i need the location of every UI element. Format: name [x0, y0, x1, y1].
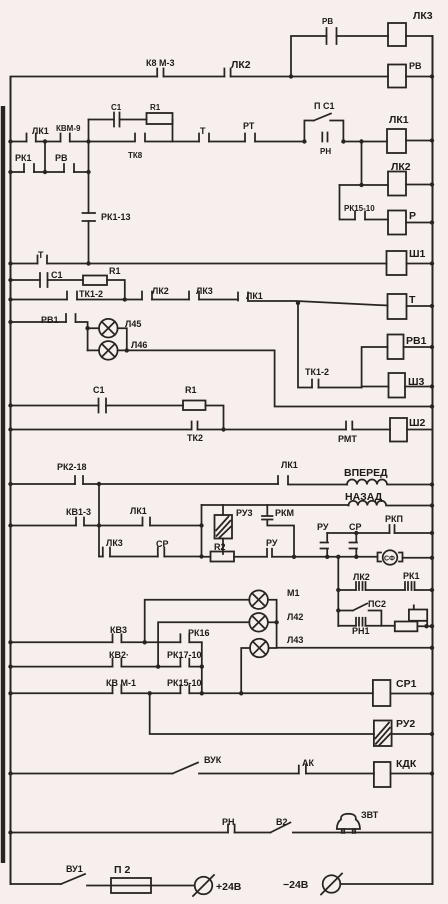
contact К8 М-3 — [157, 69, 163, 77]
svg-text:РК2-18: РК2-18 — [57, 462, 87, 472]
wire row7 — [11, 406, 224, 430]
motor СФ — [378, 550, 403, 565]
contact РК1 — [24, 164, 34, 172]
wire РУ3 stubs — [222, 505, 224, 554]
contact РК2-18 — [75, 476, 83, 484]
contact КВ2 — [113, 659, 122, 667]
svg-text:СР: СР — [156, 539, 169, 549]
svg-text:В2: В2 — [276, 817, 288, 827]
contact РКП — [390, 525, 395, 533]
svg-text:ЛК2: ЛК2 — [231, 59, 251, 71]
wire C1R1 parallel branch — [89, 120, 173, 142]
svg-text:ТК1-2: ТК1-2 — [305, 367, 329, 377]
capacitor C1 — [114, 113, 120, 127]
contact РК15-10 — [355, 212, 365, 220]
svg-text:ВПЕРЕД: ВПЕРЕД — [344, 467, 388, 479]
relay coil ЛК2 — [388, 172, 406, 196]
lamp Л43 — [250, 639, 269, 658]
svg-text:+24В: +24В — [216, 881, 242, 893]
contact Т — [199, 134, 209, 142]
node row2 drop — [359, 139, 363, 143]
wire row3 — [11, 263, 387, 265]
svg-text:РН1: РН1 — [352, 626, 370, 636]
node row2 right — [86, 139, 90, 143]
contact СР — [158, 548, 165, 557]
contact РВ — [327, 28, 337, 44]
wire lamp М1 feed — [145, 600, 250, 643]
svg-text:РУ3: РУ3 — [236, 508, 253, 518]
wire row ЛК2-РК1 — [338, 589, 432, 591]
contact ЛК1 — [278, 476, 288, 484]
svg-text:М1: М1 — [287, 588, 300, 598]
relay coil ЛК3 — [388, 23, 406, 46]
wire mid vertical — [44, 142, 46, 173]
contact ЛК3 — [103, 548, 110, 557]
contact СР vertical — [350, 533, 358, 557]
wire row4 — [11, 280, 125, 299]
resistor R1 — [83, 276, 107, 286]
svg-text:Т: Т — [200, 126, 206, 136]
wire РУ2 drop — [150, 693, 374, 734]
terminal +24В — [193, 875, 214, 896]
capacitor С1 — [99, 399, 107, 413]
contact РУ — [267, 549, 272, 557]
wire row10 КВ1-3 — [11, 525, 202, 527]
svg-text:РВ: РВ — [322, 17, 333, 26]
svg-text:Ш3: Ш3 — [408, 376, 425, 388]
wire top rail НАЗАД feed — [202, 504, 349, 506]
contact ТК2 — [192, 422, 198, 430]
svg-text:ЛК1: ЛК1 — [246, 291, 263, 301]
contact ЛК1 — [143, 518, 151, 526]
blinker РУ3 — [215, 515, 233, 539]
wire lamp Л43 feed — [241, 648, 250, 693]
svg-text:ЛК2: ЛК2 — [152, 286, 169, 296]
contact РКМ vertical — [262, 505, 294, 557]
switch ВУК — [173, 763, 199, 774]
svg-text:РК1-13: РК1-13 — [101, 212, 131, 222]
wire lamp Л42 feed — [158, 622, 249, 666]
wire lamp2 leads — [88, 349, 275, 351]
wire bottom rail — [202, 557, 433, 558]
svg-text:ЗВТ: ЗВТ — [361, 810, 379, 820]
svg-text:РН: РН — [222, 817, 235, 827]
bell ЗВТ — [337, 814, 360, 833]
contact ЛК1 — [27, 134, 36, 142]
svg-text:R1: R1 — [185, 385, 197, 395]
inductor ВПЕРЕД — [347, 480, 433, 485]
contact РМТ — [346, 422, 352, 430]
wire node vertical x88 — [88, 120, 90, 264]
contact ЛК1 — [238, 293, 248, 301]
relay coil Ш1 — [387, 251, 407, 275]
wire row5 — [11, 300, 388, 306]
svg-text:ЛК1: ЛК1 — [389, 114, 409, 126]
contact ТК1-2 — [312, 380, 319, 388]
svg-text:РВ: РВ — [409, 61, 422, 71]
contact Т — [38, 256, 48, 264]
svg-text:К8 М-3: К8 М-3 — [146, 58, 175, 68]
svg-text:КВ2·: КВ2· — [109, 650, 129, 660]
contact РН — [322, 133, 327, 142]
wire bottom left — [11, 884, 195, 886]
svg-text:РК15-10: РК15-10 — [344, 204, 375, 213]
svg-text:С1: С1 — [51, 270, 63, 280]
svg-text:РУ2: РУ2 — [396, 718, 415, 730]
node row9 branch — [97, 482, 101, 486]
contact РВ — [64, 164, 74, 172]
wire lamp feed to bus — [275, 350, 433, 406]
box aux — [409, 605, 427, 627]
wire rowII КВ2 РК17-10 — [11, 666, 202, 668]
relay coil КДК — [374, 762, 391, 787]
svg-text:РК17-10: РК17-10 — [167, 650, 202, 660]
svg-text:R1: R1 — [109, 266, 121, 276]
svg-text:Л46: Л46 — [131, 340, 147, 350]
svg-text:Ш1: Ш1 — [409, 248, 426, 260]
contact РН — [228, 825, 235, 833]
svg-text:ЛК3: ЛК3 — [413, 10, 433, 22]
wire row6 — [11, 322, 88, 350]
svg-text:РК16: РК16 — [188, 628, 210, 638]
contact ЛК2 — [142, 292, 152, 300]
wire row2 — [11, 141, 388, 143]
wire Ш3 feed — [362, 386, 389, 388]
svg-text:С1: С1 — [111, 103, 122, 112]
lamp Л46 — [99, 341, 118, 360]
wire row2b — [11, 171, 89, 173]
capacitor С1 — [40, 273, 48, 287]
wire x338 drop — [337, 557, 339, 626]
contact ЛК2 — [356, 582, 366, 590]
svg-text:КВ М-1: КВ М-1 — [106, 678, 136, 688]
svg-text:АК: АК — [302, 758, 314, 768]
blinker РУ2 — [374, 721, 392, 747]
svg-text:РВ1: РВ1 — [41, 315, 59, 325]
svg-text:П 2: П 2 — [114, 864, 130, 876]
lamp М1 — [249, 590, 268, 609]
svg-text:Т: Т — [38, 250, 44, 260]
wire drop to ЛК2 coil — [340, 142, 389, 186]
svg-text:ВУ1: ВУ1 — [66, 864, 83, 874]
relay coil РВ1 — [388, 335, 404, 360]
lamp Л42 — [249, 613, 268, 632]
inductor НАЗАД — [349, 501, 433, 506]
contact РТ — [245, 134, 255, 142]
wire row РН В2 ЗВТ — [11, 832, 433, 834]
contact КВ М-1 — [113, 685, 122, 693]
wire lamp tie and output — [268, 600, 433, 648]
relay coil Ш2 — [390, 418, 407, 442]
fuse П2 — [111, 878, 151, 893]
svg-text:СФ: СФ — [384, 556, 395, 563]
relay coil Ш3 — [389, 373, 406, 398]
contact КВ3 — [113, 634, 122, 642]
wire row11 ЛК3-СР — [99, 556, 202, 558]
contact РК1-13 — [83, 213, 96, 221]
svg-text:РВ1: РВ1 — [406, 335, 427, 347]
svg-text:РК15-10: РК15-10 — [167, 678, 202, 688]
svg-text:ЛК1: ЛК1 — [281, 460, 298, 470]
svg-text:ТК2: ТК2 — [187, 433, 203, 443]
svg-text:ЛК3: ЛК3 — [106, 538, 123, 548]
svg-text:−24В: −24В — [283, 879, 309, 891]
switch ВУ1 — [61, 874, 85, 884]
svg-text:РКМ: РКМ — [275, 508, 294, 518]
svg-text:КДК: КДК — [396, 758, 417, 770]
relay coil ЛК1 — [387, 129, 406, 153]
svg-text:РКП: РКП — [385, 514, 403, 524]
contact РК15-10 — [180, 685, 189, 693]
svg-text:КВМ-9: КВМ-9 — [56, 124, 81, 133]
svg-text:Л42: Л42 — [287, 612, 303, 622]
relay coil РВ — [388, 65, 406, 88]
svg-text:РК1: РК1 — [403, 571, 420, 581]
contact РК1 — [405, 582, 415, 590]
svg-text:Т: Т — [409, 294, 416, 306]
contact РК16 — [180, 634, 189, 642]
wire rowI — [11, 641, 202, 643]
lamp Л45 — [99, 319, 118, 338]
switch П С1 block — [304, 114, 343, 142]
svg-text:ЛК3: ЛК3 — [196, 286, 213, 296]
node mid row2 — [43, 139, 47, 143]
node row5 drop — [296, 301, 300, 305]
wire Р branch — [340, 185, 389, 220]
svg-text:ТК8: ТК8 — [128, 151, 143, 160]
wire left bus — [10, 77, 12, 884]
switch В2 — [270, 823, 290, 833]
wire rowIII КВ М-1 РК15-10 — [11, 692, 373, 694]
contact ТК1-2 — [67, 292, 77, 300]
svg-text:ЛК2: ЛК2 — [353, 572, 370, 582]
wire bottom right — [340, 883, 432, 885]
svg-text:ПС2: ПС2 — [368, 599, 386, 609]
wire right bus — [432, 36, 434, 884]
svg-text:ЛК2: ЛК2 — [391, 161, 411, 173]
svg-text:R1: R1 — [150, 103, 161, 112]
svg-text:РН: РН — [320, 147, 331, 156]
resistor R1 — [183, 401, 206, 411]
svg-text:ЛК1: ЛК1 — [32, 126, 49, 136]
contact ЛК3 — [189, 292, 199, 300]
svg-text:Р: Р — [409, 210, 416, 222]
wire row ВУК — [11, 773, 374, 775]
wire row9 РК2-18 — [11, 483, 348, 486]
svg-text:R2: R2 — [214, 542, 226, 552]
node row1-PB branch — [289, 74, 293, 78]
wire rows tie vertical — [201, 642, 203, 693]
wire subnet left vertical — [201, 505, 203, 557]
wire row РН1 — [338, 625, 432, 627]
svg-text:РТ: РТ — [243, 121, 255, 131]
svg-text:КВ3: КВ3 — [110, 625, 127, 635]
svg-text:СР1: СР1 — [396, 678, 417, 690]
node lamp1 tap — [85, 326, 89, 330]
svg-text:Ш2: Ш2 — [409, 417, 426, 429]
svg-text:ВУК: ВУК — [204, 755, 222, 765]
resistor R3 — [395, 622, 418, 632]
relay coil Т — [388, 294, 407, 319]
wire lamp1 leads — [88, 328, 127, 350]
wire PB branch — [291, 36, 388, 77]
contact КВМ-9 — [61, 134, 70, 142]
relay coil Р — [388, 211, 406, 235]
svg-text:РУ: РУ — [317, 522, 329, 532]
wire row1 — [11, 76, 389, 78]
svg-text:Л45: Л45 — [125, 319, 141, 329]
resistor R2 — [211, 552, 235, 562]
contact РВ1 — [66, 314, 76, 322]
svg-text:РВ: РВ — [55, 153, 68, 163]
wire row8 — [11, 429, 391, 431]
svg-text:ЛК1: ЛК1 — [130, 506, 147, 516]
svg-text:П С1: П С1 — [314, 101, 334, 111]
svg-text:ТК1-2: ТК1-2 — [79, 289, 103, 299]
contact РК17-10 — [180, 659, 189, 667]
svg-text:РУ: РУ — [266, 538, 278, 548]
svg-text:С1: С1 — [93, 385, 105, 395]
contact АК — [299, 766, 306, 774]
SCAN-EDGE — [1, 106, 5, 863]
contact РУ vertical — [321, 533, 329, 557]
svg-text:Л43: Л43 — [287, 635, 303, 645]
wire mid rail РКП line — [327, 532, 432, 534]
contact КВ1-3 — [76, 518, 84, 526]
contact ЛК2 — [224, 69, 230, 77]
svg-text:НАЗАД: НАЗАД — [345, 491, 383, 503]
resistor R1 — [147, 113, 173, 124]
switch ПС2 — [338, 604, 381, 626]
contact РН1 — [356, 618, 366, 626]
relay coil СР1 — [373, 680, 391, 706]
svg-text:КВ1-3: КВ1-3 — [66, 507, 91, 517]
svg-text:СР: СР — [349, 522, 362, 532]
wire РВ1-Ш3 tie — [362, 347, 388, 388]
contact ТК8 — [89, 134, 173, 142]
wire vertical x99 — [98, 484, 100, 557]
wire ТК1-2 drop — [298, 303, 362, 388]
svg-text:РМТ: РМТ — [338, 434, 357, 444]
svg-text:РК1: РК1 — [15, 153, 32, 163]
